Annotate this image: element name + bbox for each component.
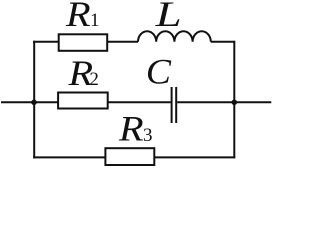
label R2 [67, 54, 98, 94]
right bus wire [233, 41, 235, 158]
svg-text:R: R [118, 109, 144, 149]
svg-text:C: C [146, 51, 172, 91]
svg-text:L: L [154, 0, 181, 35]
svg-text:1: 1 [90, 10, 100, 31]
left bus wire [33, 41, 35, 159]
inductor L [138, 31, 211, 42]
label R3 [118, 109, 153, 149]
right lead wire [234, 101, 271, 103]
wire R2 to C [108, 101, 171, 103]
capacitor C [172, 87, 177, 123]
resistor R1 [59, 34, 107, 51]
svg-text:2: 2 [89, 69, 99, 90]
resistor R3 [105, 148, 154, 165]
wire R1 to L [107, 41, 138, 43]
left lead wire [1, 101, 34, 103]
wire R3 to bottom-right [154, 156, 235, 158]
wire C to node B [177, 101, 234, 103]
label L [154, 0, 181, 35]
wire top-left to R1 [33, 41, 59, 43]
label R1 [65, 0, 100, 34]
label C [146, 51, 172, 91]
node A (left junction) [31, 100, 37, 106]
svg-text:R: R [65, 0, 91, 34]
node B (right junction) [232, 100, 238, 106]
resistor R2 [58, 93, 108, 109]
svg-text:3: 3 [143, 125, 153, 146]
wire node A to R2 [34, 101, 58, 103]
wire bottom-left to R3 [33, 156, 105, 158]
wire L to top-right [211, 41, 235, 43]
